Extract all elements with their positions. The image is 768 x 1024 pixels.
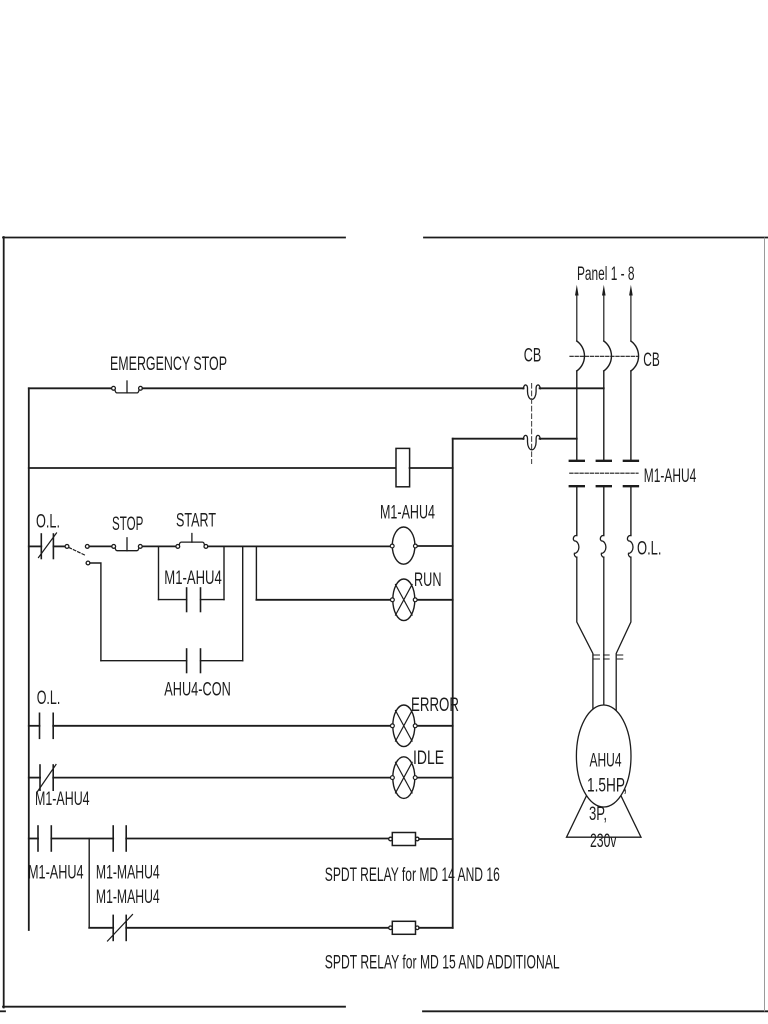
svg-text:STOP: STOP — [112, 513, 143, 535]
wire phase L2 lower — [603, 557, 605, 712]
rung 3 wire coil to right bus — [417, 545, 452, 547]
rung 4 wire to ERROR lamp — [53, 725, 391, 727]
overload heater O.L. pole 1 — [573, 535, 579, 557]
rung 3 wire to selector — [53, 545, 65, 547]
holding branch wire left — [159, 599, 187, 601]
lamp IDLE right terminal — [413, 776, 417, 780]
svg-text:O.L.: O.L. — [637, 538, 662, 560]
svg-text:IDLE: IDLE — [413, 747, 444, 769]
svg-text:M1-AHU4: M1-AHU4 — [35, 788, 90, 810]
wire rung 1 left section (emergency stop rung) — [29, 387, 112, 389]
RUN branch vertical drop — [255, 546, 257, 599]
motor label 3P, — [589, 803, 607, 825]
border frame right edge — [764, 238, 766, 1011]
rung 6 wire middle — [51, 838, 113, 840]
wire phase L2 below contactor — [603, 487, 605, 535]
relay coil 1 left terminal — [389, 837, 393, 841]
svg-text:CB: CB — [643, 349, 660, 371]
SPDT relay 1 label — [325, 864, 500, 886]
motor label 230v — [590, 830, 617, 852]
relay coil 2 left terminal — [389, 926, 393, 930]
svg-text:Panel 1 - 8: Panel 1 - 8 — [577, 263, 635, 285]
pushbutton EMERGENCY STOP (NC) — [112, 381, 143, 393]
border frame bottom-right segment — [423, 1010, 768, 1012]
contact M1-AHU4 (NC with slash) rung 5 — [38, 765, 57, 792]
node Panel 1 - 8 label — [577, 263, 635, 285]
ERROR label — [411, 694, 459, 716]
lamp ERROR right terminal — [413, 724, 417, 728]
lamp ERROR body — [393, 705, 415, 747]
wire phase L2 mid — [603, 371, 605, 460]
coil M1-AHU4 right terminal — [414, 544, 418, 548]
lamp RUN right terminal — [413, 598, 417, 602]
rung 6 wire to relay — [126, 838, 390, 840]
wire phase L3 below contactor — [630, 487, 632, 535]
coil M1-AHU4 left terminal — [390, 544, 394, 548]
IDLE label — [413, 747, 444, 769]
rung 7 wire to right bus — [419, 927, 453, 929]
rung 3 wire from left bus — [29, 545, 42, 547]
lamp IDLE body — [393, 757, 415, 799]
contactor tie dashed line — [570, 472, 638, 474]
svg-text:CB: CB — [524, 345, 542, 367]
wire control rail 2 from right bus — [453, 438, 524, 440]
AHU4-CON label — [164, 679, 231, 701]
contact M1-MAHU4 (NC with slash) rung 7 — [108, 915, 133, 942]
CB label left — [524, 345, 542, 367]
relay coil 2 right terminal — [416, 926, 420, 930]
wire phase L3 lower — [616, 557, 631, 712]
motor label 1.5HP, — [587, 774, 627, 796]
lamp RUN body — [393, 579, 415, 621]
svg-text:START: START — [176, 510, 216, 532]
wire phase L1 below contactor — [576, 487, 578, 535]
rung 6 wire to right bus — [419, 838, 453, 840]
AHU4-CON branch wire left — [101, 660, 187, 662]
rung 3 wire START to coil — [208, 545, 391, 547]
overload heater O.L. pole 3 — [627, 535, 633, 557]
rung 3 wire to STOP — [89, 545, 111, 547]
contact M1-MAHU4 (NO) rung 6 — [113, 826, 126, 851]
SPDT relay 2 label — [325, 951, 560, 973]
contactor M1-AHU4 main contact pole 3 — [624, 461, 638, 486]
contact M1-AHU4 (NO) rung 6 — [38, 826, 51, 851]
wire from throw B to lower branch — [90, 563, 101, 661]
branch vertical left of holding contact — [158, 546, 160, 599]
ERROR wire to right bus — [417, 725, 452, 727]
svg-text:RUN: RUN — [414, 569, 442, 591]
contact M1-AHU4 holding (NO) — [187, 588, 201, 612]
wire phase L3 upper with source arrow — [630, 294, 632, 341]
rung 4 wire from left bus — [29, 725, 40, 727]
svg-text:O.L.: O.L. — [37, 687, 61, 709]
svg-text:AHU4-CON: AHU4-CON — [164, 679, 231, 701]
svg-text:M1-AHU4: M1-AHU4 — [644, 465, 697, 487]
svg-text:SPDT RELAY for MD 15 AND ADDIT: SPDT RELAY for MD 15 AND ADDITIONAL — [325, 951, 560, 973]
circuit breaker CB pole 2 — [604, 341, 612, 371]
circuit breaker CB pole 3 — [631, 341, 639, 371]
RUN wire to right bus — [417, 599, 452, 601]
svg-text:M1-AHU4: M1-AHU4 — [380, 502, 435, 524]
rung 7 wire left — [89, 927, 113, 929]
svg-text:230v: 230v — [590, 830, 617, 852]
overload heater O.L. pole 2 — [600, 535, 606, 557]
rung 2 fuse wire left — [29, 467, 396, 469]
wire phase L2 upper with source arrow — [603, 294, 605, 341]
svg-text:ERROR: ERROR — [411, 694, 459, 716]
wire rung 1 right section to phase L2 — [540, 387, 604, 389]
border frame bottom-left segment — [3, 1006, 345, 1008]
pushbutton STOP (NC) — [112, 538, 142, 551]
selector switch common terminal — [65, 545, 69, 549]
pushbutton START (NO) — [176, 534, 208, 549]
svg-text:M1-MAHU4: M1-MAHU4 — [96, 862, 160, 884]
selector blade dashed — [69, 548, 86, 556]
holding contact label M1-AHU4 — [164, 567, 222, 589]
right bus vertical — [452, 439, 454, 928]
circuit breaker CB pole 1 — [577, 341, 585, 371]
contactor M1-AHU4 main contact pole 2 — [597, 461, 611, 486]
selector throw B terminal — [86, 561, 90, 565]
contactor M1-AHU4 main contact pole 1 — [570, 461, 584, 486]
svg-text:1.5HP,: 1.5HP, — [587, 774, 627, 796]
rung 6 wire from left bus — [29, 838, 38, 840]
relay coil 1 box SPDT MD14/16 — [392, 833, 415, 846]
wire crossing hop on rail 2 — [523, 435, 540, 449]
rung 6 to rung 7 vertical link — [88, 839, 90, 928]
wire crossing hop on rung 1 — [523, 385, 540, 399]
branch vertical right of holding contact — [223, 546, 225, 599]
RUN label — [414, 569, 442, 591]
coil M1-AHU4 body — [392, 527, 415, 564]
rung 5 wire to IDLE lamp — [53, 777, 391, 779]
relay coil 1 right terminal — [416, 837, 420, 841]
wire rail 2 right section to phase L1 — [540, 438, 577, 440]
CB mechanical tie dashed line — [570, 355, 638, 357]
contact O.L. aux (NO) rung 4 — [40, 713, 54, 738]
lamp IDLE left terminal — [391, 776, 395, 780]
CB tie dashed vertical link — [531, 384, 533, 464]
contact AHU4-CON (NO) — [187, 649, 201, 673]
wire phase L1 upper with source arrow — [576, 294, 578, 341]
IDLE wire to right bus — [417, 777, 452, 779]
svg-text:3P,: 3P, — [589, 803, 607, 825]
svg-text:O.L.: O.L. — [36, 511, 60, 533]
coil label M1-AHU4 — [380, 502, 435, 524]
CB label right — [643, 349, 660, 371]
svg-text:M1-AHU4: M1-AHU4 — [164, 567, 222, 589]
svg-text:M1-AHU4: M1-AHU4 — [28, 862, 84, 884]
svg-text:AHU4: AHU4 — [590, 750, 622, 772]
wire rung 1 middle section — [142, 387, 523, 389]
border frame top-left segment — [3, 237, 345, 239]
svg-text:EMERGENCY STOP: EMERGENCY STOP — [110, 353, 227, 375]
motor label AHU4 — [590, 750, 622, 772]
svg-text:SPDT RELAY for MD 14 AND 16: SPDT RELAY for MD 14 AND 16 — [325, 864, 500, 886]
motor terminal tick T1 — [594, 655, 600, 659]
contactor label M1-AHU4 — [644, 465, 697, 487]
motor mount triangle — [567, 760, 642, 837]
left bus vertical — [28, 388, 30, 930]
AHU4-CON branch right vertical — [242, 546, 244, 660]
AHU4-CON branch wire right — [201, 660, 243, 662]
fuse box — [396, 448, 410, 486]
rung 3 wire STOP to START — [142, 545, 175, 547]
wire phase L1 lower — [577, 557, 593, 712]
rung 7 wire to relay — [126, 927, 390, 929]
svg-text:M1-MAHU4: M1-MAHU4 — [96, 886, 160, 908]
rung 5 wire from left bus — [29, 777, 40, 779]
selector throw A terminal — [85, 545, 89, 549]
lamp ERROR left terminal — [391, 724, 395, 728]
relay coil 2 box SPDT MD15 — [392, 921, 415, 934]
rung 2 fuse wire right — [410, 467, 453, 469]
border frame top-right segment — [424, 237, 768, 239]
border frame left edge — [3, 237, 5, 1008]
overload contact O.L. (NC with slash) rung 3 — [39, 533, 57, 559]
holding branch wire right — [201, 599, 225, 601]
wire phase L1 mid — [576, 371, 578, 460]
motor terminal tick T2 — [604, 655, 610, 659]
motor AHU4 body ellipse — [576, 705, 631, 807]
border frame bottom-left tick — [0, 1010, 5, 1012]
motor terminal tick T3 — [617, 655, 623, 659]
RUN branch wire — [256, 599, 391, 601]
wire phase L3 mid — [630, 371, 632, 460]
O.L. label power side — [637, 538, 662, 560]
lamp RUN left terminal — [391, 598, 395, 602]
